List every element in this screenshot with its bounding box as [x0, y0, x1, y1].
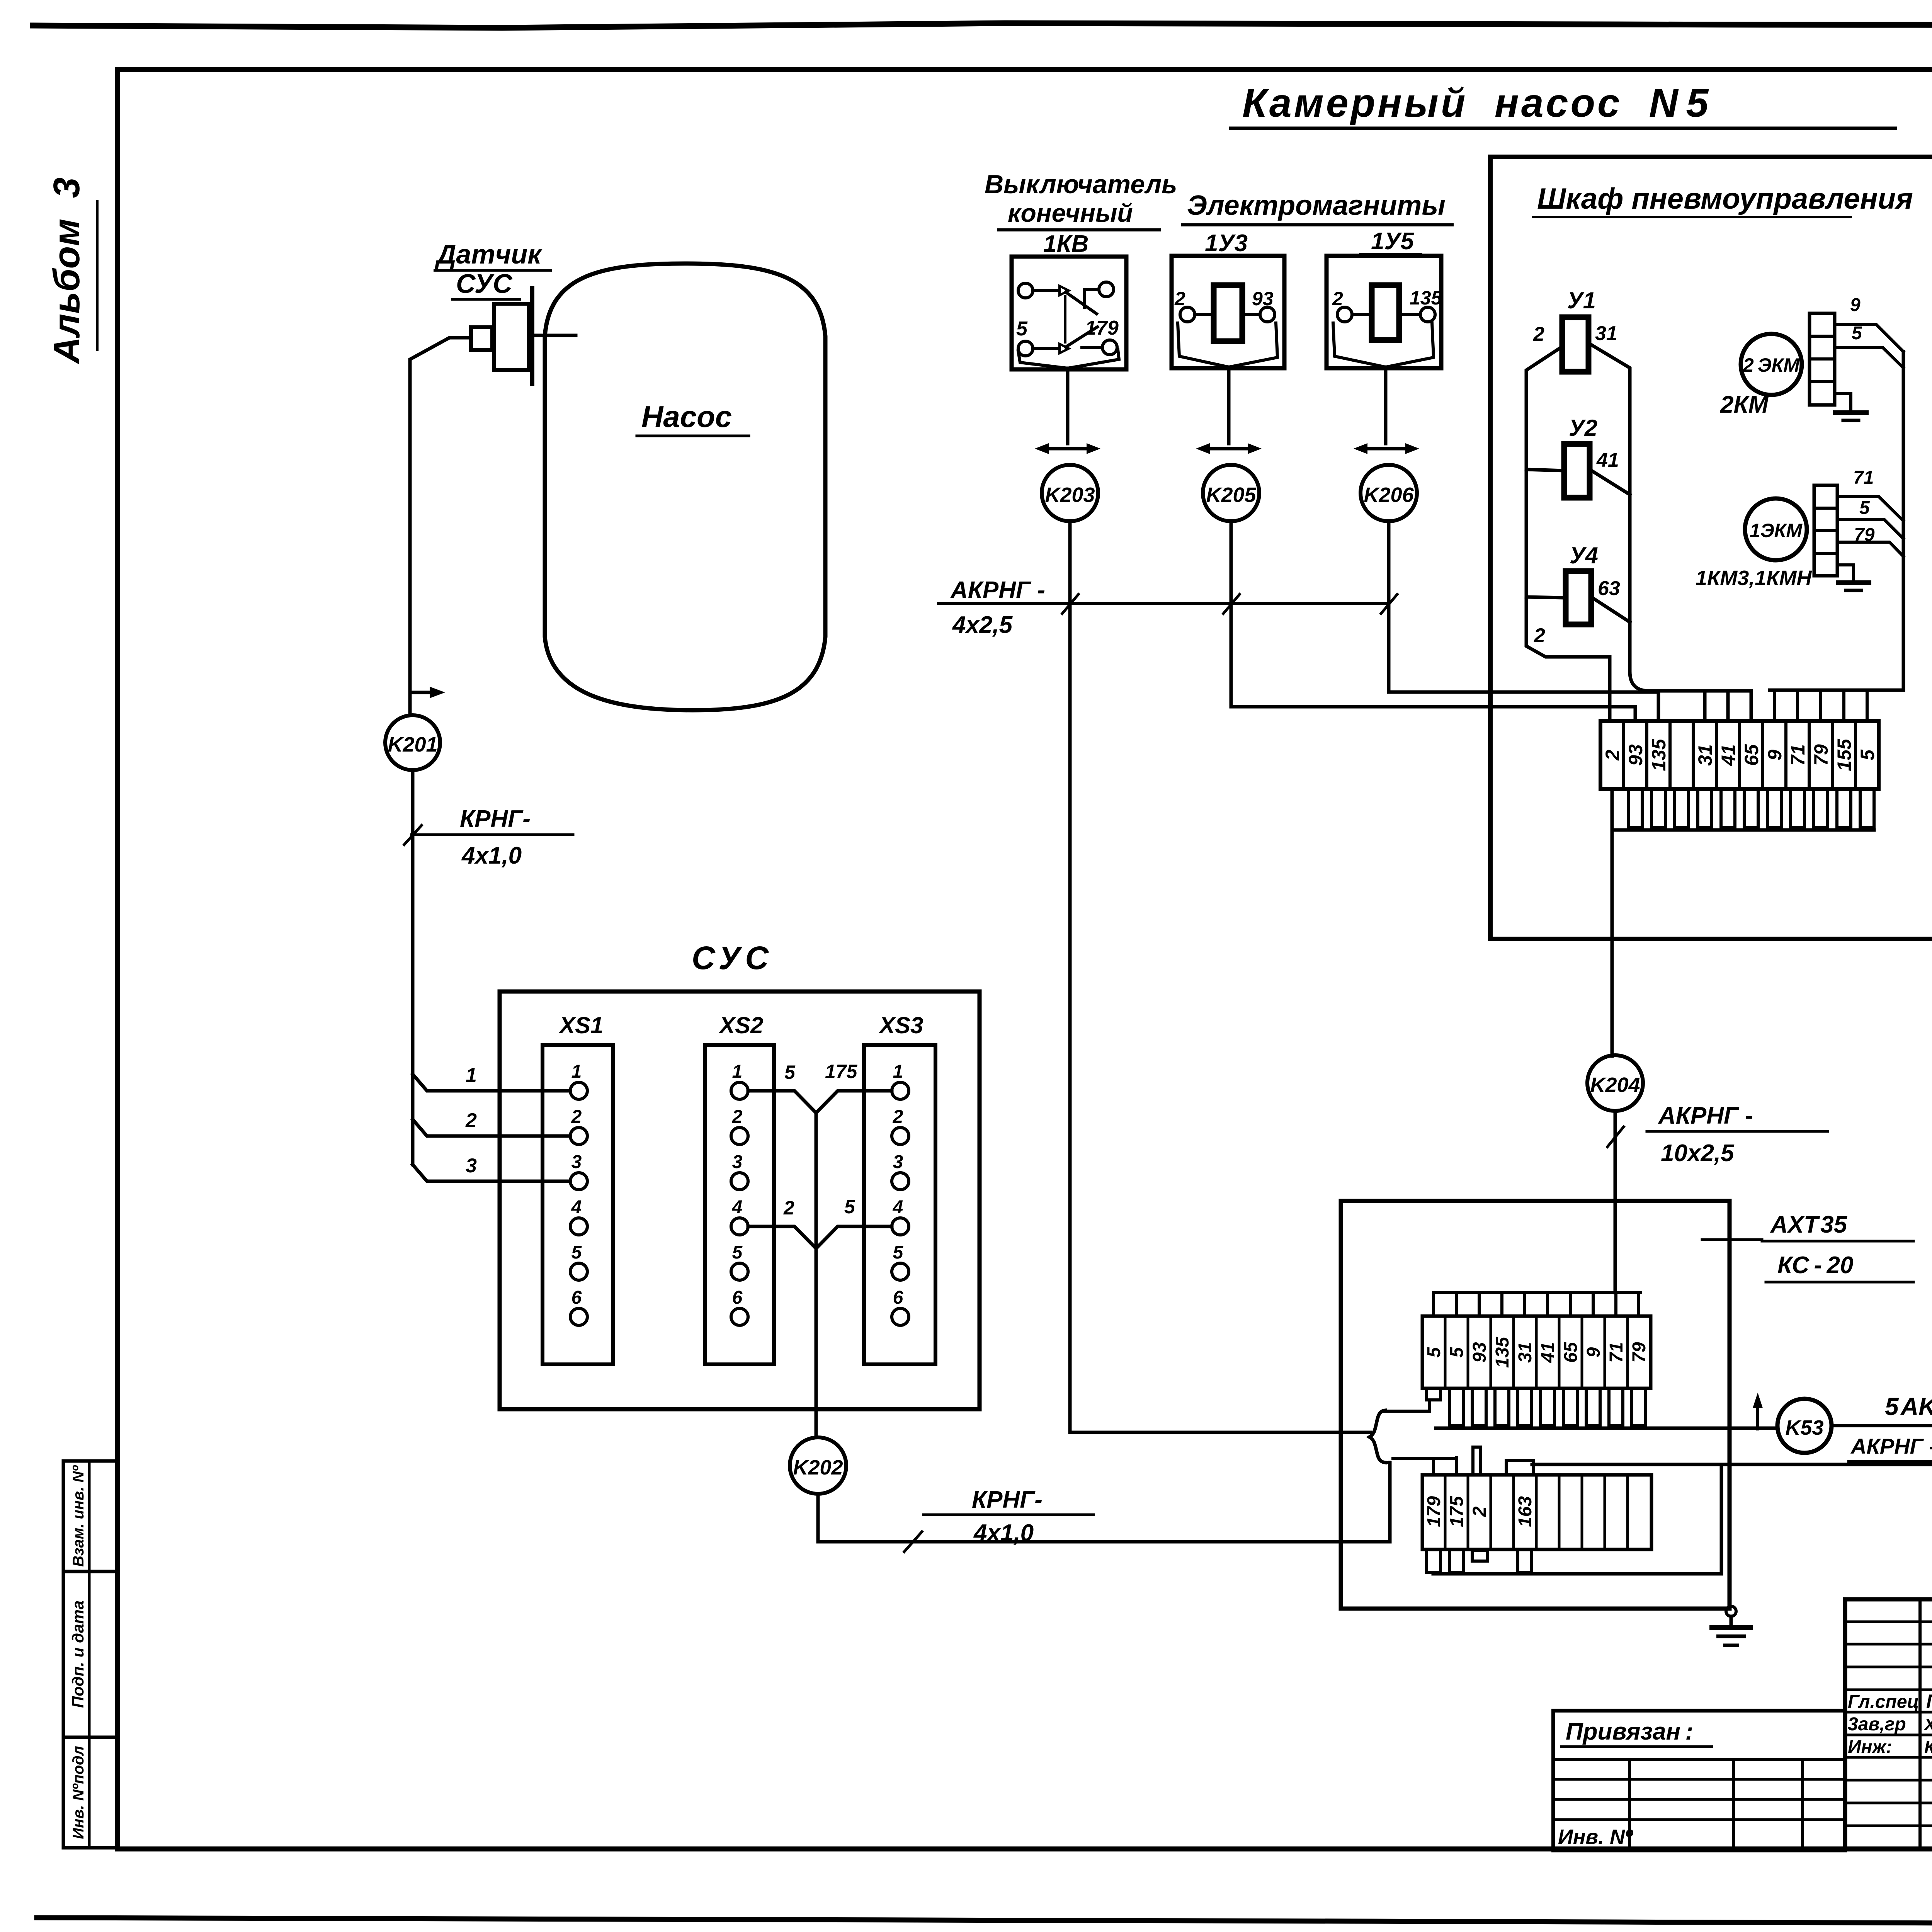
privyazan block — [1553, 1711, 1845, 1850]
svg-text:2 ЭКМ: 2 ЭКМ — [1743, 354, 1800, 376]
svg-text:XS1: XS1 — [558, 1012, 603, 1038]
svg-text:XS2: XS2 — [718, 1012, 763, 1038]
strip lower lugs — [1628, 789, 1642, 828]
wire K202 to terminal box — [818, 1463, 1390, 1542]
svg-text:10х2,5: 10х2,5 — [1661, 1140, 1735, 1167]
svg-text:СУС: СУС — [692, 940, 773, 976]
svg-text:93: 93 — [1252, 288, 1274, 310]
1U5 pin 2 — [1337, 307, 1352, 322]
box lower terminal strip — [1422, 1475, 1651, 1549]
box terminal 135 — [1492, 1337, 1513, 1368]
wire K201 down — [411, 770, 415, 1165]
svg-text:1: 1 — [466, 1064, 477, 1087]
pressure gauge 1EKM — [1745, 498, 1807, 560]
1U5 coil — [1372, 285, 1399, 340]
svg-text:31: 31 — [1694, 744, 1716, 766]
svg-text:163: 163 — [1515, 1496, 1536, 1527]
1U3 pin 2 — [1180, 307, 1195, 322]
box terminal 71 — [1606, 1342, 1627, 1362]
svg-text:K201: K201 — [388, 733, 437, 756]
1KV pin top-right — [1099, 282, 1114, 297]
svg-text:5: 5 — [844, 1196, 855, 1218]
2EKM terminal stack — [1810, 313, 1835, 405]
album margin text — [46, 177, 87, 364]
svg-text:КРНГ-: КРНГ- — [972, 1486, 1043, 1513]
svg-text:K204: K204 — [1590, 1073, 1640, 1097]
svg-text:Выключатель: Выключатель — [985, 170, 1177, 199]
svg-text:1: 1 — [571, 1061, 582, 1082]
1KV wire basket — [1018, 350, 1119, 368]
svg-text:5: 5 — [1447, 1347, 1467, 1357]
box upper terminal strip — [1422, 1316, 1651, 1388]
svg-text:4: 4 — [893, 1197, 903, 1218]
svg-text:31: 31 — [1515, 1342, 1536, 1362]
cable label 5AKSH — [1832, 1424, 1932, 1427]
svg-text:155: 155 — [1833, 738, 1855, 771]
svg-text:2: 2 — [1534, 624, 1545, 647]
box terminal 5 — [1447, 1347, 1467, 1357]
svg-text:135: 135 — [1410, 287, 1442, 309]
wire K206 to cabinet terminal 135 — [1389, 521, 1658, 721]
terminal 5 — [1857, 749, 1878, 760]
box terminal 93 — [1469, 1342, 1490, 1363]
feeder fan from K204 — [1434, 1291, 1640, 1294]
cable crossing arrows K206 — [1364, 447, 1411, 451]
svg-text:K53: K53 — [1785, 1416, 1823, 1439]
wire K205 to cabinet terminal 93 — [1231, 521, 1635, 721]
wires to XS1 pins 1..3 — [413, 1074, 570, 1091]
svg-text:СУС: СУС — [456, 269, 513, 299]
wire K203 down and to terminal box — [1070, 521, 1371, 1432]
pump tank (Nasos) — [545, 264, 825, 710]
direction arrow up — [1756, 1406, 1759, 1429]
cabinet terminal strip XT — [1600, 721, 1879, 789]
svg-text:Инв. Nº: Инв. Nº — [1558, 1825, 1633, 1849]
svg-text:5: 5 — [784, 1061, 796, 1083]
svg-text:АКРНГ -: АКРНГ - — [950, 577, 1045, 604]
box terminal 163 — [1515, 1496, 1536, 1527]
svg-text:1У3: 1У3 — [1205, 230, 1248, 257]
svg-text:79: 79 — [1629, 1342, 1650, 1363]
box terminal 5 — [1424, 1347, 1444, 1357]
scan top border — [33, 23, 1932, 28]
cable crossing arrows K203 — [1046, 447, 1092, 451]
svg-text:3ав,гр: 3ав,гр — [1848, 1714, 1906, 1735]
svg-text:3: 3 — [466, 1155, 477, 1177]
wire 1KV down — [1066, 368, 1070, 444]
svg-text:Хрипушкина: Хрипушкина — [1923, 1715, 1932, 1734]
svg-text:Подп. и дата: Подп. и дата — [69, 1600, 87, 1708]
svg-text:1У5: 1У5 — [1371, 228, 1414, 255]
cable crossing arrows K205 — [1207, 447, 1253, 451]
svg-text:6: 6 — [732, 1287, 743, 1308]
svg-text:1: 1 — [893, 1061, 903, 1082]
svg-text:2: 2 — [732, 1107, 743, 1127]
box terminal 2 — [1469, 1506, 1490, 1517]
title block frame — [1845, 1599, 1932, 1849]
svg-text:5: 5 — [1859, 498, 1870, 518]
svg-text:2: 2 — [1602, 750, 1623, 761]
wire sensor to K201 — [410, 338, 471, 715]
svg-text:2: 2 — [1533, 323, 1544, 345]
svg-text:135: 135 — [1492, 1337, 1513, 1368]
1KV pin 5 bottom-left — [1018, 341, 1033, 356]
svg-text:K202: K202 — [793, 1456, 843, 1479]
flow arrow — [410, 691, 432, 694]
1U5 pin 135 — [1420, 307, 1435, 322]
svg-text:6: 6 — [571, 1287, 582, 1308]
svg-text:5: 5 — [1424, 1347, 1444, 1357]
svg-text:63: 63 — [1598, 577, 1620, 600]
cable marker K203 — [1042, 465, 1098, 521]
svg-text:5 AKSH: 5 AKSH — [1885, 1393, 1932, 1420]
svg-text:65: 65 — [1561, 1342, 1581, 1363]
svg-text:K205: K205 — [1206, 483, 1256, 507]
pneumatic control cabinet (Shkaf pnevmoupravleniya) — [1490, 157, 1932, 939]
1U3 wire basket — [1178, 323, 1277, 367]
svg-text:175: 175 — [1447, 1496, 1467, 1527]
svg-text:5: 5 — [1016, 318, 1028, 340]
svg-text:93: 93 — [1469, 1342, 1490, 1363]
terminal 79 — [1810, 744, 1832, 766]
svg-text:41: 41 — [1718, 744, 1739, 766]
terminal 93 — [1625, 744, 1646, 766]
box terminal 79 — [1629, 1342, 1650, 1363]
junction box AHT35/KS-20 — [1341, 1201, 1730, 1609]
svg-text:179: 179 — [1424, 1496, 1444, 1527]
1U3 pin 93 — [1260, 307, 1275, 322]
svg-text:2: 2 — [571, 1107, 582, 1127]
terminal 9 — [1764, 750, 1786, 760]
svg-text:2: 2 — [783, 1197, 794, 1219]
lower strip upper stubs — [1432, 1459, 1435, 1475]
svg-text:КС - 20: КС - 20 — [1777, 1252, 1854, 1279]
svg-text:71: 71 — [1787, 744, 1809, 766]
svg-text:41: 41 — [1538, 1342, 1558, 1363]
svg-text:Потехин: Потехин — [1926, 1690, 1932, 1712]
cable marker K201 — [385, 715, 440, 770]
pressure gauge 2EKM — [1741, 334, 1802, 395]
svg-text:5: 5 — [1852, 323, 1862, 344]
svg-text:179: 179 — [1085, 317, 1119, 339]
svg-text:4х2,5: 4х2,5 — [952, 612, 1013, 638]
margin stamp Inv.N podl — [63, 1737, 117, 1848]
svg-text:9: 9 — [1583, 1347, 1604, 1357]
terminal 2 — [1602, 750, 1623, 761]
svg-text:Электромагниты: Электромагниты — [1187, 190, 1446, 221]
1U3 coil — [1214, 285, 1242, 341]
svg-text:5: 5 — [571, 1242, 582, 1263]
margin stamp Vzam.inv.N — [63, 1461, 117, 1571]
svg-text:2: 2 — [1469, 1506, 1490, 1517]
margin stamp Podp. i data — [63, 1571, 117, 1737]
right rail wires 31/41/63 — [1588, 343, 1751, 691]
svg-text:4: 4 — [571, 1197, 582, 1218]
svg-text:9: 9 — [1850, 295, 1861, 315]
svg-text:79: 79 — [1810, 744, 1832, 766]
svg-text:4: 4 — [732, 1197, 743, 1218]
svg-text:3: 3 — [893, 1152, 903, 1172]
wire junction down to K202 — [815, 1113, 818, 1437]
wire to K53 (bus under lugs) — [1436, 1427, 1777, 1430]
wire 1U3 down — [1227, 367, 1231, 444]
box terminal 175 — [1447, 1496, 1467, 1527]
svg-text:Взам. инв. Nº: Взам. инв. Nº — [70, 1465, 87, 1567]
cable marker K206 — [1361, 465, 1417, 521]
1EKM ground — [1837, 565, 1854, 580]
svg-text:31: 31 — [1595, 322, 1617, 345]
siren circuit lug and wire 163 — [1506, 1461, 1533, 1475]
svg-text:71: 71 — [1606, 1342, 1627, 1362]
svg-text:93: 93 — [1625, 744, 1646, 766]
svg-text:Насос: Насос — [641, 400, 732, 434]
svg-text:2: 2 — [1174, 288, 1185, 310]
svg-text:2: 2 — [893, 1107, 903, 1127]
cable marker K204 — [1587, 1055, 1643, 1111]
svg-text:3: 3 — [571, 1152, 582, 1172]
svg-text:5: 5 — [732, 1242, 743, 1263]
svg-text:Привязан :: Привязан : — [1566, 1718, 1693, 1745]
left rail wire (net 2) — [1526, 347, 1610, 721]
svg-text:4х1,0: 4х1,0 — [973, 1520, 1034, 1546]
svg-text:Инж:: Инж: — [1848, 1737, 1892, 1757]
jumper XS2.1 - XS3.1 — [748, 1091, 816, 1113]
title block rows (left) — [1845, 1621, 1932, 1623]
svg-text:Кадыкова: Кадыкова — [1924, 1737, 1932, 1757]
svg-text:Гл.спец: Гл.спец — [1848, 1692, 1919, 1712]
svg-text:9: 9 — [1764, 750, 1786, 760]
svg-text:5: 5 — [893, 1242, 904, 1263]
svg-text:K206: K206 — [1364, 483, 1414, 507]
svg-text:АКРНГ -: АКРНГ - — [1658, 1102, 1753, 1129]
cable bracket — [1369, 1410, 1385, 1463]
1U5 wire basket — [1333, 323, 1434, 367]
1KV pin top-left — [1018, 283, 1033, 298]
jumper XS2.4 - XS3.4 — [748, 1226, 816, 1248]
svg-text:6: 6 — [893, 1287, 903, 1308]
lower strip lower lugs — [1427, 1549, 1440, 1573]
svg-text:Камерный насос N 5: Камерный насос N 5 — [1242, 81, 1711, 126]
terminal 155 — [1833, 738, 1855, 771]
wire K204 down into box — [1614, 1111, 1617, 1293]
scan bottom border — [37, 1918, 1932, 1925]
svg-text:АКРНГ - 14х2,5: АКРНГ - 14х2,5 — [1850, 1434, 1932, 1458]
terminal 71 — [1787, 744, 1809, 766]
svg-text:65: 65 — [1741, 744, 1762, 766]
terminal 31 — [1694, 744, 1716, 766]
terminal 41 — [1718, 744, 1739, 766]
svg-text:Инв. Nºподл: Инв. Nºподл — [70, 1746, 87, 1839]
svg-text:1КВ: 1КВ — [1043, 231, 1088, 257]
wire 1U5 down — [1384, 367, 1388, 444]
svg-text:135: 135 — [1648, 738, 1670, 771]
svg-text:У4: У4 — [1570, 543, 1598, 568]
svg-text:КРНГ-: КРНГ- — [460, 806, 531, 832]
wire strip to K204 — [1611, 789, 1614, 1056]
svg-text:4х1,0: 4х1,0 — [461, 842, 522, 869]
svg-text:K203: K203 — [1045, 483, 1095, 507]
1EKM terminal stack — [1814, 485, 1837, 576]
title block columns — [1918, 1599, 1922, 1849]
box strip lower lugs — [1427, 1388, 1440, 1400]
cable marker K53 — [1777, 1399, 1832, 1453]
svg-text:Альбом 3: Альбом 3 — [46, 177, 87, 364]
1KV pin 179 bottom-right — [1102, 340, 1117, 355]
svg-text:конечный: конечный — [1008, 199, 1133, 227]
box terminal 41 — [1538, 1342, 1558, 1363]
box terminal 9 — [1583, 1347, 1604, 1357]
svg-text:41: 41 — [1596, 449, 1619, 471]
svg-text:АХТ 35: АХТ 35 — [1770, 1211, 1848, 1238]
svg-text:1ЭКМ: 1ЭКМ — [1750, 520, 1803, 541]
box terminal 31 — [1515, 1342, 1536, 1362]
svg-text:1: 1 — [732, 1061, 743, 1082]
EKM rail down to terminals — [1770, 352, 1903, 690]
svg-text:2: 2 — [1332, 288, 1343, 310]
cable marker K205 — [1203, 465, 1259, 521]
svg-text:5: 5 — [1857, 749, 1878, 760]
terminal 65 — [1741, 744, 1762, 766]
svg-text:У1: У1 — [1567, 287, 1596, 313]
2EKM ground — [1835, 393, 1851, 410]
svg-text:У2: У2 — [1569, 415, 1597, 441]
svg-text:XS3: XS3 — [878, 1012, 923, 1038]
svg-text:2: 2 — [465, 1109, 477, 1132]
svg-text:3: 3 — [732, 1152, 743, 1172]
svg-text:175: 175 — [825, 1061, 858, 1082]
svg-text:Шкаф пневмоуправления: Шкаф пневмоуправления — [1537, 182, 1913, 215]
box terminal 65 — [1561, 1342, 1581, 1363]
terminal 135 — [1648, 738, 1670, 771]
svg-text:2КМ: 2КМ — [1720, 391, 1769, 418]
svg-text:1КМ3,1КМН: 1КМ3,1КМН — [1696, 566, 1812, 590]
1KV contacts — [1033, 289, 1060, 292]
cable marker K202 — [790, 1437, 846, 1494]
svg-text:Датчик: Датчик — [435, 239, 543, 269]
ground — [1726, 1606, 1736, 1616]
svg-text:71: 71 — [1853, 468, 1874, 488]
box terminal 179 — [1424, 1496, 1444, 1527]
sensor SUS body — [471, 327, 492, 350]
